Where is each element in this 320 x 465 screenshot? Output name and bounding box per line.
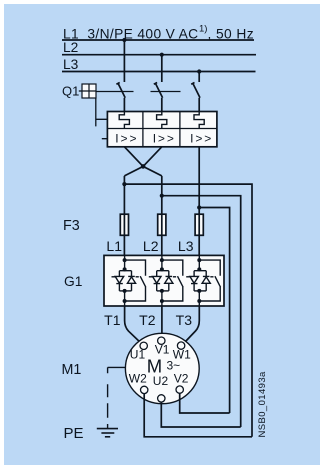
- svg-text:U2: U2: [153, 374, 169, 388]
- gate thyristor V1b: [136, 276, 139, 278]
- wire L1 to Q1 pole1: [123, 40, 125, 82]
- junction dot L3/pole3: [197, 69, 201, 73]
- wire T1 to motor U1: [125, 306, 141, 343]
- svg-text:W2: W2: [129, 372, 147, 386]
- breaker Q1 trip unit dividers: [107, 112, 216, 147]
- thyristor bottom rail phase3: [194, 290, 206, 292]
- thyristor V2a forward (down): [153, 276, 162, 291]
- wire tap3 to right rail V2: [199, 208, 229, 414]
- wire tap2 to right rail U2: [162, 196, 241, 427]
- junction dot G1 phase3 top: [197, 258, 201, 262]
- junction dot G1 phase3 bottom: [197, 299, 201, 303]
- wire bypass branch phase2 lower: [162, 287, 183, 301]
- wire T3 to motor W1: [184, 306, 199, 343]
- junction dot tap3: [197, 205, 201, 209]
- node L1 bus line: [62, 39, 254, 41]
- svg-text:PE: PE: [64, 425, 84, 442]
- wire bypass branch phase3 upper: [199, 260, 220, 276]
- thyristor top rail phase1: [119, 271, 131, 277]
- wire G1 phase1 entry: [124, 255, 126, 260]
- gate thyristor V3b: [210, 276, 213, 278]
- wire L2 to Q1 pole2: [161, 55, 163, 82]
- svg-text:T1: T1: [104, 312, 121, 328]
- thyristor V1b reverse (up): [127, 276, 135, 291]
- svg-text:NSB0_01493a: NSB0_01493a: [257, 371, 268, 438]
- softstarter G1 box: [104, 255, 224, 306]
- wire phase3 rail to exit: [198, 291, 200, 306]
- wire bypass branch phase1 lower: [125, 287, 146, 301]
- thyristor V3a forward (down): [190, 276, 199, 291]
- breaker Q1 manual operator box: [82, 84, 96, 98]
- wire G1 phase3 entry: [198, 255, 200, 260]
- wire phase1 to thyristor rail: [124, 260, 126, 269]
- gate thyristor V3a: [186, 276, 190, 278]
- wire pole2 contact to trip unit: [161, 98, 163, 112]
- junction dot thyristor rail top phase1: [123, 267, 127, 271]
- wire V2 down around to right rail: [180, 393, 230, 413]
- wire bypass branch phase1 upper: [125, 260, 146, 276]
- breaker Q1 pole3 contact: [191, 83, 200, 98]
- junction dot G1 phase1 bottom: [123, 299, 127, 303]
- wire G1 phase2 entry: [161, 255, 163, 260]
- wire pole3 contact to trip unit: [198, 98, 200, 112]
- junction dot thyristor rail bottom phase3: [197, 289, 201, 293]
- wire through fuse1 to G1: [123, 214, 125, 255]
- thermal release pole2: [157, 112, 167, 129]
- wire motor frame to PE dashed: [108, 366, 126, 368]
- wire pole2 below crossover to fuse: [161, 176, 163, 214]
- thyristor top rail phase3: [194, 271, 206, 277]
- fuse F3 phase1: [120, 214, 128, 235]
- node L3 bus line: [62, 71, 256, 73]
- wire bypass branch phase2 upper: [162, 260, 183, 276]
- junction dot tap2: [160, 194, 164, 198]
- wire crossover pole1-pole2: [124, 147, 161, 176]
- thyristor bottom rail phase2: [157, 290, 169, 292]
- junction dot thyristor rail bottom phase2: [160, 289, 164, 293]
- thyristor V3b reverse (up): [202, 276, 210, 291]
- junction dot G1 phase1 top: [123, 258, 127, 262]
- wire phase1 rail to exit: [124, 291, 126, 306]
- junction dot thyristor rail bottom phase1: [123, 289, 127, 293]
- thermal release pole1: [119, 112, 129, 129]
- terminal V1: [158, 337, 165, 344]
- junction blob at crossover: [141, 164, 146, 169]
- junction dot thyristor rail top phase3: [197, 267, 201, 271]
- svg-text:M1: M1: [62, 362, 82, 378]
- svg-text:U1: U1: [130, 348, 146, 362]
- breaker Q1 mechanical linkage dashed: [96, 91, 181, 93]
- gate thyristor V2b: [173, 276, 176, 278]
- junction dot tap1: [122, 182, 126, 186]
- junction dot L2/pole2: [160, 53, 164, 57]
- junction dot L1/pole1: [122, 38, 126, 42]
- wire pole3 to fuse: [198, 147, 200, 214]
- wire L3 to Q1 pole3: [198, 72, 200, 83]
- breaker Q1 operator-to-trip-unit linkage: [96, 98, 107, 139]
- thyristor top rail phase2: [157, 271, 169, 277]
- node L2 bus line: [62, 54, 256, 56]
- svg-text:T2: T2: [139, 312, 156, 328]
- thermal release pole3: [194, 112, 204, 129]
- terminal W1: [177, 342, 184, 349]
- breaker Q1 trip unit box: [107, 112, 216, 147]
- breaker Q1 pole2 contact: [154, 83, 163, 98]
- fuse F3 phase2: [158, 214, 166, 235]
- wire pole1 below crossover to fuse: [123, 176, 125, 214]
- gate thyristor V2a: [149, 276, 153, 278]
- junction dot thyristor rail top phase2: [160, 267, 164, 271]
- wire T2 to motor V1: [161, 306, 163, 337]
- terminal V2: [176, 386, 183, 393]
- fuse F3 phase3: [195, 214, 203, 235]
- thyristor V2b reverse (up): [165, 276, 173, 291]
- gate thyristor V1a: [112, 276, 116, 278]
- bypass contact phase1: [140, 276, 146, 287]
- wire phase2 rail to exit: [161, 291, 163, 306]
- bypass contact phase3: [215, 276, 221, 287]
- wire tap1 to right rail W2: [124, 184, 252, 437]
- terminal W2: [141, 386, 148, 393]
- wire through fuse2 to G1: [161, 214, 163, 255]
- wire U2 down around to right rail: [161, 402, 240, 427]
- thyristor bottom rail phase1: [119, 290, 131, 292]
- terminal U2: [158, 395, 165, 402]
- bypass contact phase2: [178, 276, 184, 287]
- wire phase3 to thyristor rail: [198, 260, 200, 269]
- wire pole1 contact to trip unit: [123, 98, 125, 112]
- wire through fuse3 to G1: [198, 214, 200, 255]
- wire Q1 label tick: [79, 90, 82, 92]
- wire phase2 to thyristor rail: [161, 260, 163, 269]
- breaker Q1 pole1 contact: [116, 83, 125, 98]
- svg-text:3~: 3~: [167, 359, 181, 373]
- svg-text:V2: V2: [174, 372, 189, 386]
- motor M1 body: [125, 333, 199, 403]
- terminal U1: [140, 342, 147, 349]
- junction dot G1 phase2 top: [160, 258, 164, 262]
- thyristor V1a forward (down): [115, 276, 124, 291]
- junction dot G1 phase2 bottom: [160, 299, 164, 303]
- wire W2 down around to right rail: [144, 394, 252, 437]
- svg-text:T3: T3: [176, 312, 193, 328]
- ground symbol PE: [97, 429, 118, 437]
- wire bypass branch phase3 lower: [199, 287, 220, 301]
